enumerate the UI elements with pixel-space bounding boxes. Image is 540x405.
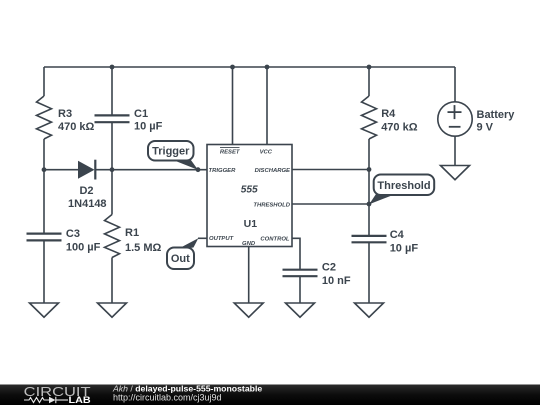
wire C1 branch lower [111, 122, 113, 170]
svg-text:THRESHOLD: THRESHOLD [253, 202, 290, 208]
svg-text:LAB: LAB [69, 395, 92, 405]
wire R4 to discharge junction [368, 139, 370, 170]
svg-text:RESET: RESET [220, 149, 241, 155]
wire battery branch top [454, 67, 456, 102]
svg-text:C4: C4 [390, 229, 405, 241]
pin RESET [220, 147, 241, 155]
svg-text:555: 555 [241, 185, 258, 196]
wire top rail [44, 66, 455, 68]
ground (C2 branch) [286, 303, 315, 317]
node junction dot rail/R4 [367, 65, 372, 70]
wire GND pin to ground [248, 247, 250, 303]
wire C3 to ground [43, 240, 45, 302]
svg-text:CONTROL: CONTROL [260, 237, 290, 243]
wire trigger row left segment [44, 169, 78, 171]
capacitor C2 [283, 270, 318, 277]
svg-text:R4: R4 [381, 108, 396, 120]
wire R1 to ground [111, 258, 113, 303]
label C3 value [66, 228, 101, 254]
svg-text:C3: C3 [66, 228, 80, 240]
footer bar [0, 385, 540, 405]
wire discharge junction to threshold junction [368, 170, 370, 205]
wire left vertical upper (rail to R3) [43, 67, 45, 96]
capacitor C1 [95, 115, 130, 122]
wire THRESHOLD pin [292, 203, 369, 205]
wire R4 branch upper [368, 67, 370, 96]
svg-text:TRIGGER: TRIGGER [209, 168, 237, 174]
wire OUTPUT pin stub [198, 237, 207, 239]
logo resistor-diode squiggle [24, 397, 68, 403]
ground (R1 branch) [98, 303, 127, 317]
node junction dot rail/RESET [230, 65, 235, 70]
svg-text:10 nF: 10 nF [322, 275, 351, 287]
svg-text:9 V: 9 V [477, 121, 494, 133]
wire battery to ground [454, 136, 456, 165]
svg-text:OUTPUT: OUTPUT [209, 236, 235, 242]
wire RESET pin to rail [232, 67, 234, 145]
wire C2 to ground [299, 276, 301, 302]
capacitor C3 [27, 234, 62, 241]
svg-text:470 kΩ: 470 kΩ [58, 121, 95, 133]
wire CONTROL pin to C2 [292, 238, 300, 269]
wire DISCHARGE pin [292, 169, 369, 171]
ground (C3 branch) [30, 303, 59, 317]
svg-text:C1: C1 [134, 108, 148, 120]
ground (battery) [441, 166, 470, 180]
svg-text:R1: R1 [125, 227, 139, 239]
svg-text:Trigger: Trigger [152, 145, 190, 157]
resistor R4 [362, 96, 377, 139]
wire C4 to ground [368, 242, 370, 302]
node junction dot threshold/C4 [367, 202, 372, 207]
svg-text:1N4148: 1N4148 [68, 198, 107, 210]
svg-text:C2: C2 [322, 262, 336, 274]
label C4 value [390, 229, 419, 255]
label C1 value [134, 108, 163, 133]
ground (555 GND) [234, 303, 263, 317]
wire diode cathode to junction [95, 169, 112, 171]
label R3 value [58, 108, 95, 133]
svg-text:R3: R3 [58, 108, 72, 120]
label R1 value [125, 227, 162, 254]
node junction dot diode/C1/R1 [110, 167, 115, 172]
svg-text:Threshold: Threshold [377, 180, 430, 192]
svg-text:http://circuitlab.com/cj3uj9d: http://circuitlab.com/cj3uj9d [113, 393, 222, 403]
node junction dot rail/VCC [265, 65, 270, 70]
svg-text:GND: GND [242, 241, 256, 247]
svg-text:Battery: Battery [477, 109, 516, 121]
svg-text:Out: Out [171, 253, 190, 265]
wire R1 branch upper [111, 170, 113, 215]
capacitor C4 [352, 236, 387, 242]
node junction dot left/trigger row [42, 167, 47, 172]
node Out flag [167, 238, 198, 269]
svg-text:D2: D2 [79, 185, 93, 197]
svg-text:10 µF: 10 µF [134, 121, 163, 133]
label C2 value [322, 262, 351, 287]
battery V1 [438, 102, 472, 136]
label Battery value [477, 109, 516, 133]
node junction dot trigger label [196, 167, 201, 172]
svg-text:VCC: VCC [260, 149, 273, 155]
wire R3 to trigger row [43, 139, 45, 170]
label R4 value [381, 108, 418, 133]
wire C1 branch upper [111, 67, 113, 115]
node junction dot discharge/R4 [367, 167, 372, 172]
wire VCC pin to rail [266, 67, 268, 145]
resistor R3 [37, 96, 52, 139]
svg-text:DISCHARGE: DISCHARGE [255, 168, 291, 174]
wire junction to 555 TRIGGER pin [112, 169, 207, 171]
node Trigger flag [148, 141, 198, 170]
node junction dot rail/C1 [110, 65, 115, 70]
IC U1 555 timer body [207, 145, 292, 247]
svg-text:U1: U1 [244, 218, 258, 230]
diode D2 [78, 160, 95, 180]
svg-text:1.5 MΩ: 1.5 MΩ [125, 242, 162, 254]
wire threshold junction to C4 [368, 204, 370, 236]
resistor R1 [105, 215, 120, 258]
ground (C4 branch) [355, 303, 384, 317]
svg-text:470 kΩ: 470 kΩ [381, 122, 418, 134]
wire left vertical to C3 [43, 170, 45, 234]
node Threshold flag [369, 175, 434, 205]
svg-text:100 µF: 100 µF [66, 242, 101, 254]
svg-text:10 µF: 10 µF [390, 243, 419, 255]
label D2 value [68, 185, 107, 210]
